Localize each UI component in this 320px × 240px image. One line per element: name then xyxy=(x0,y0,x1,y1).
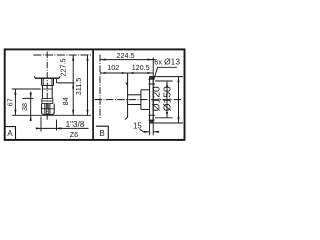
collar side right xyxy=(52,98,54,103)
leader arrow xyxy=(153,76,155,81)
bell inner wall left xyxy=(42,78,44,85)
flange plate outline xyxy=(150,77,154,123)
svg-text:A: A xyxy=(7,129,13,138)
dim 15 leader xyxy=(140,129,144,132)
dim 67 line xyxy=(14,89,16,115)
spline tooth line left xyxy=(44,104,46,114)
spline tooth line mid-left xyxy=(46,104,48,114)
break hook lower xyxy=(125,117,128,119)
dim 120.5 right arrow xyxy=(147,72,153,74)
dim 15 line right stub xyxy=(153,131,159,133)
spline dim left arrow xyxy=(36,127,41,129)
svg-text:224.5: 224.5 xyxy=(117,51,135,60)
dim 38 upper arrow xyxy=(30,93,32,99)
collar top line xyxy=(42,97,53,99)
PTO flange top edge xyxy=(35,77,59,79)
dim 224.5 left arrow xyxy=(100,59,106,61)
svg-text:120.5: 120.5 xyxy=(132,63,150,72)
dim 15 line left stub xyxy=(143,131,150,133)
ext line flange bottom xyxy=(153,122,183,124)
collar mid line xyxy=(42,100,53,102)
svg-text:67: 67 xyxy=(5,98,14,106)
dim 67 bottom arrow xyxy=(14,110,16,116)
flange face stub xyxy=(56,79,58,83)
dim 102 left arrow xyxy=(100,72,106,74)
bell bottom face xyxy=(42,84,54,86)
svg-text:311.5: 311.5 xyxy=(74,78,83,95)
spline tooth line mid-right xyxy=(47,104,49,114)
dim Ø150 bottom arrow xyxy=(177,117,179,123)
panel divider xyxy=(92,49,94,139)
svg-text:15: 15 xyxy=(133,122,142,131)
svg-text:Ø150: Ø150 xyxy=(162,86,173,111)
spline mid line xyxy=(42,108,55,110)
dim 102 line xyxy=(100,72,128,74)
flange hatch bottom xyxy=(150,120,153,123)
flange left break tick xyxy=(33,76,36,78)
svg-text:38: 38 xyxy=(20,103,29,111)
dim 15 right arrow xyxy=(153,131,158,133)
dim 67 top arrow xyxy=(14,89,16,95)
spline dim right arrow xyxy=(57,127,62,129)
panel B horizontal center line xyxy=(95,99,183,101)
chain dimension line 227.5/84 xyxy=(72,55,74,115)
bolt hole top upper edge xyxy=(149,78,155,80)
svg-text:102: 102 xyxy=(107,63,119,72)
ext line flange top xyxy=(153,76,183,78)
input shaft bottom edge xyxy=(128,104,141,106)
svg-text:227.5: 227.5 xyxy=(59,59,68,77)
spline tooth line right xyxy=(49,104,51,114)
dim 311.5 top arrow xyxy=(86,55,88,61)
dim 38 line xyxy=(30,92,32,121)
dim 311.5 bottom arrow xyxy=(86,110,88,116)
dim 38 lower arrow xyxy=(30,115,32,121)
flange face extension line xyxy=(57,82,75,84)
break hook upper xyxy=(126,83,128,86)
chain junction arrow xyxy=(72,83,74,89)
bolt hole bottom lower edge xyxy=(149,119,155,121)
panel B vertical center line xyxy=(99,55,101,120)
bolt hole bottom upper edge xyxy=(149,114,156,116)
flange right face ext xyxy=(152,58,154,136)
flange left face ext xyxy=(149,123,151,135)
collar bottom line xyxy=(42,103,53,105)
chain bottom arrow xyxy=(72,110,74,116)
dim 15 left arrow xyxy=(144,131,149,133)
label box B xyxy=(96,126,108,140)
spline ext line right xyxy=(56,120,58,131)
collar side left xyxy=(41,98,43,103)
svg-text:B: B xyxy=(99,129,104,138)
flange hatch top xyxy=(150,77,153,79)
dim Ø150 line xyxy=(178,77,180,123)
svg-text:6x Ø13: 6x Ø13 xyxy=(154,57,180,67)
dim 311.5 line xyxy=(87,55,89,115)
bell outer wall right xyxy=(53,78,55,85)
leader 6x Ø13 xyxy=(154,67,177,79)
dim Ø120 bottom arrow xyxy=(166,112,168,118)
dim 224.5 line xyxy=(100,59,156,61)
flange right break tick xyxy=(58,76,61,78)
outer frame xyxy=(5,49,185,139)
spline dim line xyxy=(36,127,88,129)
spline body outline xyxy=(42,104,55,115)
shaft step line xyxy=(42,88,52,90)
hub left face xyxy=(140,90,142,110)
dim Ø120 top arrow xyxy=(166,81,168,87)
ext line bolt circle bottom xyxy=(155,117,173,119)
chain top arrow xyxy=(72,55,74,61)
hub top edge xyxy=(141,89,150,91)
shaft neck right xyxy=(51,85,53,98)
dim Ø120 line xyxy=(166,81,168,118)
panel A vertical center line xyxy=(46,52,48,121)
shaft neck left xyxy=(41,85,43,98)
collar top extension line xyxy=(23,97,34,99)
input shaft top edge xyxy=(128,94,141,96)
dim 120.5 line xyxy=(128,72,154,74)
bell outer wall left xyxy=(41,78,43,85)
dim 102 right arrow xyxy=(122,72,128,74)
step extension line xyxy=(12,88,41,90)
label box A xyxy=(5,127,16,140)
hub bottom edge xyxy=(141,108,150,110)
bolt hole top lower edge xyxy=(149,83,156,85)
svg-text:84: 84 xyxy=(61,97,70,105)
shaft break line xyxy=(127,74,129,118)
spline ext line left xyxy=(40,117,42,132)
dim 224.5 right arrow xyxy=(147,59,153,61)
svg-text:Z6: Z6 xyxy=(70,130,78,139)
panel A horizontal datum line xyxy=(33,54,92,56)
dim Ø150 top arrow xyxy=(177,77,179,83)
svg-text:1"3/8: 1"3/8 xyxy=(66,120,85,129)
bell inner wall right xyxy=(51,78,53,85)
dim 120.5 left arrow xyxy=(128,72,134,74)
ext line bolt circle top xyxy=(155,80,173,82)
shaft end extension line xyxy=(12,114,91,116)
